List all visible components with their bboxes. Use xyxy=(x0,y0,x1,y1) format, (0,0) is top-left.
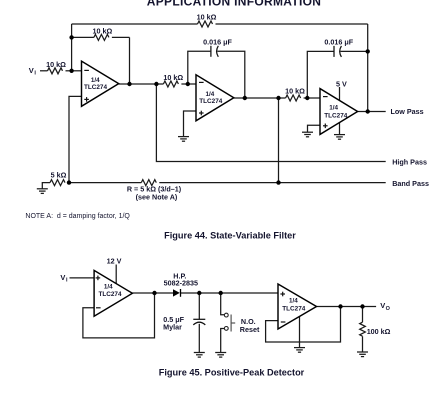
svg-text:12 V: 12 V xyxy=(107,256,122,265)
svg-text:TLC274: TLC274 xyxy=(282,306,306,313)
svg-text:TLC274: TLC274 xyxy=(199,98,223,105)
svg-text:Low Pass: Low Pass xyxy=(391,107,424,116)
svg-text:10 kΩ: 10 kΩ xyxy=(163,73,183,82)
svg-text:TLC274: TLC274 xyxy=(324,112,348,119)
svg-text:5082-2835: 5082-2835 xyxy=(164,279,198,288)
svg-text:1/4: 1/4 xyxy=(329,104,338,111)
svg-text:10 kΩ: 10 kΩ xyxy=(93,26,113,35)
svg-text:0.016 μF: 0.016 μF xyxy=(324,38,353,47)
svg-text:Mylar: Mylar xyxy=(163,323,182,332)
svg-text:TLC274: TLC274 xyxy=(84,84,108,91)
svg-text:O: O xyxy=(386,306,391,312)
svg-text:5 V: 5 V xyxy=(336,79,347,88)
svg-text:Band Pass: Band Pass xyxy=(392,179,429,188)
svg-text:V: V xyxy=(60,273,65,282)
svg-text:100 kΩ: 100 kΩ xyxy=(367,327,391,336)
svg-text:10 kΩ: 10 kΩ xyxy=(285,86,305,95)
svg-text:1/4: 1/4 xyxy=(104,283,113,290)
svg-text:Reset: Reset xyxy=(240,325,260,334)
svg-text:10 kΩ: 10 kΩ xyxy=(197,12,217,21)
svg-text:TLC274: TLC274 xyxy=(98,291,122,298)
svg-text:0.016 μF: 0.016 μF xyxy=(203,38,232,47)
svg-text:1/4: 1/4 xyxy=(289,298,298,305)
svg-text:Figure 44. State-Variable Filt: Figure 44. State-Variable Filter xyxy=(164,230,296,240)
svg-text:(see Note A): (see Note A) xyxy=(136,192,178,201)
svg-text:1/4: 1/4 xyxy=(206,91,215,98)
svg-text:Figure 45. Positive-Peak Detec: Figure 45. Positive-Peak Detector xyxy=(159,368,305,378)
svg-text:1/4: 1/4 xyxy=(91,77,100,84)
svg-text:10 kΩ: 10 kΩ xyxy=(46,60,66,69)
svg-text:V: V xyxy=(29,66,34,75)
svg-text:5 kΩ: 5 kΩ xyxy=(51,171,67,180)
svg-text:V: V xyxy=(380,301,385,310)
svg-text:APPLICATION INFORMATION: APPLICATION INFORMATION xyxy=(147,0,321,9)
svg-text:NOTE A: d = damping factor, 1: NOTE A: d = damping factor, 1/Q xyxy=(25,213,130,220)
svg-text:High Pass: High Pass xyxy=(392,158,427,167)
